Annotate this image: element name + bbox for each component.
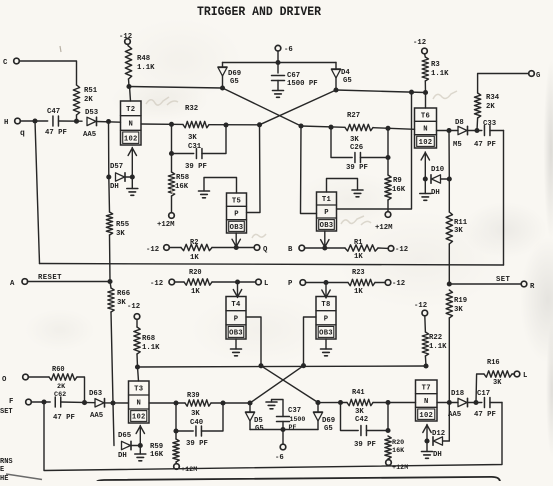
svg-text:DH: DH — [431, 189, 440, 197]
svg-text:2K: 2K — [486, 103, 495, 111]
feedback rail lower — [44, 402, 502, 471]
svg-text:1.1K: 1.1K — [431, 70, 449, 78]
cross wire T8 rail to left — [250, 366, 304, 403]
svg-text:3K: 3K — [350, 136, 359, 144]
svg-text:AA5: AA5 — [448, 411, 461, 419]
svg-text:E: E — [0, 466, 4, 474]
svg-text:D53: D53 — [85, 109, 99, 117]
arrow T5 to Q node — [235, 233, 237, 247]
svg-text:DH: DH — [110, 183, 119, 191]
svg-text:N: N — [136, 400, 141, 408]
svg-text:AA5: AA5 — [90, 412, 103, 420]
svg-text:R11: R11 — [454, 219, 468, 227]
svg-text:N: N — [128, 121, 133, 129]
arrow into T7 bottom — [426, 425, 428, 442]
svg-text:3K: 3K — [188, 134, 197, 142]
resistor R9 16K — [387, 158, 389, 176]
diode D5 to -6 rail — [249, 403, 251, 412]
node H-R51-D53 — [32, 118, 37, 123]
transistor block T2 — [121, 101, 142, 145]
svg-text:D18: D18 — [451, 390, 464, 398]
resistor R3 1.1K — [422, 57, 428, 81]
node D53-T2-D57 — [106, 119, 111, 124]
wire T1-P to cross node — [301, 126, 317, 214]
terminal -12 right of R1 — [388, 246, 394, 252]
arrow into T6 bottom — [424, 152, 426, 179]
svg-text:P: P — [288, 280, 293, 288]
resistor R39 3K — [185, 400, 211, 406]
diode D53 — [87, 117, 96, 125]
feedback rail upper — [40, 264, 504, 266]
wire -6 rail — [223, 62, 337, 64]
svg-text:P: P — [234, 211, 239, 219]
capacitor C42 39PF — [341, 403, 359, 431]
svg-text:C47: C47 — [47, 108, 60, 116]
resistor R2 1K — [181, 244, 212, 250]
resistor R27 3K — [345, 124, 373, 130]
wire T3 N output — [149, 402, 185, 404]
node C42 left — [338, 400, 343, 405]
wire D69b to R41 — [318, 402, 347, 404]
svg-text:3K: 3K — [454, 227, 463, 235]
wire D12 bypass up — [448, 403, 450, 442]
node T6 out — [446, 128, 451, 133]
diode D8 — [458, 126, 467, 134]
resistor R66 3K — [110, 282, 111, 289]
svg-text:T5: T5 — [232, 197, 241, 205]
resistor R32 3K — [183, 121, 209, 127]
terminal G — [529, 71, 535, 77]
cross wire T4 rail to right — [261, 366, 318, 403]
node R27 left — [328, 125, 333, 130]
svg-text:DH: DH — [433, 451, 442, 459]
svg-text:T7: T7 — [422, 384, 431, 392]
node T1 coupling — [298, 123, 303, 128]
svg-text:D8: D8 — [455, 119, 464, 127]
svg-text:C31: C31 — [188, 143, 202, 151]
wire R48 junction to T2 top — [130, 87, 131, 102]
diode D18 — [458, 398, 467, 406]
terminal -6 bottom — [282, 430, 284, 445]
ground above T1 — [327, 179, 358, 193]
capacitor C67 1500PF — [277, 63, 279, 74]
wire R3 node to T6 top — [425, 93, 427, 109]
svg-text:L: L — [523, 372, 527, 380]
transistor block T1 — [317, 192, 337, 231]
node T5 coupling — [257, 122, 262, 127]
vertical from C33 down — [503, 131, 505, 266]
svg-text:102: 102 — [419, 412, 433, 420]
svg-text:102: 102 — [132, 414, 146, 422]
svg-text:C40: C40 — [190, 419, 203, 427]
capacitor C26 39PF — [331, 127, 352, 157]
svg-text:-12: -12 — [395, 246, 408, 254]
svg-text:D4: D4 — [341, 69, 350, 77]
pencil scribbles — [146, 91, 457, 238]
svg-text:R27: R27 — [347, 112, 360, 120]
svg-text:-6: -6 — [284, 46, 293, 54]
arrow into T8 — [325, 283, 327, 299]
capacitor C47 — [52, 116, 54, 126]
svg-text:R32: R32 — [185, 105, 198, 113]
svg-text:2K: 2K — [84, 96, 93, 104]
svg-text:D65: D65 — [118, 432, 131, 440]
svg-text:16K: 16K — [392, 447, 405, 455]
arrow T1 to B node — [324, 231, 326, 248]
node R41 right — [385, 400, 390, 405]
diode D69 top — [222, 63, 224, 67]
svg-text:R48: R48 — [137, 55, 150, 63]
wire T8-P to lower rail — [304, 317, 317, 366]
svg-text:R41: R41 — [352, 389, 365, 397]
wire T2 N output — [141, 123, 183, 125]
svg-text:C62: C62 — [54, 391, 66, 399]
resistor R48 1.1K — [125, 46, 131, 79]
resistor R1 1K — [345, 245, 378, 251]
-6 rail bottom — [250, 429, 318, 431]
svg-text:16K: 16K — [392, 186, 406, 194]
arrow into T3 bottom — [139, 426, 141, 446]
wire D4 to R3 node — [336, 90, 426, 93]
capacitor C33 47PF — [483, 126, 485, 136]
node R39 left — [173, 400, 178, 405]
svg-text:P: P — [234, 315, 239, 323]
svg-text:T8: T8 — [321, 301, 330, 309]
svg-text:RNS: RNS — [0, 458, 13, 466]
svg-text:R23: R23 — [352, 269, 365, 277]
svg-text:R59: R59 — [150, 443, 163, 451]
svg-text:C37: C37 — [288, 407, 301, 415]
svg-text:TRIGGER AND DRIVER: TRIGGER AND DRIVER — [197, 5, 321, 19]
node R32 right — [223, 122, 228, 127]
wire T6 node down — [448, 131, 450, 180]
svg-text:R68: R68 — [142, 335, 155, 343]
node R27 right — [385, 126, 390, 131]
svg-text:+12M: +12M — [157, 221, 175, 229]
transistor block T8 — [316, 297, 336, 340]
svg-text:G5: G5 — [324, 425, 333, 433]
svg-text:PF: PF — [289, 424, 297, 431]
svg-text:T6: T6 — [421, 112, 430, 120]
svg-text:3K: 3K — [454, 306, 463, 314]
terminal +12M right — [385, 212, 391, 218]
node B — [322, 245, 327, 250]
diode D65 and ground below T3 — [113, 403, 114, 446]
wire T4-P to lower rail — [246, 317, 261, 366]
ground C67 — [273, 90, 284, 92]
svg-text:-12: -12 — [392, 280, 405, 288]
svg-text:-12: -12 — [413, 39, 426, 47]
svg-text:R66: R66 — [117, 290, 130, 298]
svg-text:3K: 3K — [117, 299, 126, 307]
transistor block T5 — [227, 193, 247, 233]
node RESET — [107, 279, 112, 284]
svg-text:R20: R20 — [392, 439, 404, 447]
capacitor C31 39PF — [172, 124, 194, 153]
svg-text:1.1K: 1.1K — [137, 64, 155, 72]
svg-text:102: 102 — [419, 139, 433, 147]
svg-text:OB3: OB3 — [230, 224, 244, 232]
ground below T8 — [325, 339, 327, 349]
resistor R41 3K — [347, 399, 373, 405]
svg-text:T4: T4 — [231, 301, 241, 309]
svg-text:-6: -6 — [275, 454, 284, 462]
svg-text:D57: D57 — [110, 163, 123, 171]
diode D69 bottom — [315, 400, 320, 405]
node Q — [234, 245, 239, 250]
svg-text:1500: 1500 — [290, 416, 306, 423]
svg-text:-12: -12 — [146, 246, 159, 254]
capacitor C40 39PF — [176, 403, 193, 431]
ground D10 — [424, 179, 426, 194]
transistor block T6 — [415, 108, 437, 148]
wire C to R51 — [19, 61, 76, 85]
terminal +12M left — [169, 213, 175, 219]
svg-text:R51: R51 — [84, 87, 98, 95]
wire H row — [20, 120, 47, 122]
svg-text:-12: -12 — [150, 280, 163, 288]
node L — [235, 279, 240, 284]
resistor R22 1.1K — [422, 332, 428, 356]
resistor R34 2K — [476, 118, 479, 131]
transistor block T7 — [416, 380, 438, 421]
svg-text:q: q — [20, 129, 25, 138]
svg-text:39 PF: 39 PF — [346, 164, 368, 172]
svg-text:+12M: +12M — [181, 466, 197, 474]
svg-text:N: N — [423, 126, 428, 134]
terminal +12M bottom right — [386, 460, 392, 466]
svg-text:1K: 1K — [190, 254, 199, 262]
svg-text:A: A — [10, 280, 15, 288]
ground above T5 — [204, 178, 237, 194]
node -6 — [275, 60, 280, 65]
node C37 — [280, 427, 285, 432]
svg-text:T2: T2 — [126, 106, 135, 114]
svg-text:D69: D69 — [228, 70, 241, 78]
svg-text:C26: C26 — [350, 144, 363, 152]
terminal -6 top — [275, 45, 281, 51]
wire to R27 — [301, 126, 345, 127]
svg-text:O: O — [2, 376, 7, 384]
terminal Q — [254, 245, 260, 251]
node R9 top — [385, 155, 390, 160]
cross wire D4 to left side — [260, 90, 337, 125]
node F feedback — [41, 399, 46, 404]
svg-text:OB3: OB3 — [229, 330, 243, 338]
svg-text:R22: R22 — [429, 334, 442, 342]
wire T6 N output — [437, 130, 459, 132]
wire R34 to G — [478, 74, 529, 94]
ground below T4 — [235, 339, 237, 349]
svg-text:R2: R2 — [190, 239, 198, 247]
resistor R55 3K — [108, 177, 111, 212]
svg-text:R60: R60 — [52, 366, 65, 374]
svg-text:R34: R34 — [486, 94, 500, 102]
svg-text:39 PF: 39 PF — [186, 440, 208, 448]
terminal -12 right of R23 — [385, 280, 391, 286]
vertical feedback wire from H node — [35, 121, 40, 264]
svg-text:L: L — [264, 280, 268, 288]
node P — [323, 280, 328, 285]
svg-text:47 PF: 47 PF — [45, 129, 67, 137]
wire T5-P to cross node — [247, 125, 261, 213]
diode D63 — [95, 399, 104, 407]
svg-text:G5: G5 — [230, 78, 239, 86]
terminal +12M bottom left — [174, 464, 180, 470]
svg-text:C: C — [3, 59, 8, 67]
node D4 — [333, 87, 338, 92]
svg-text:+12M: +12M — [375, 224, 393, 232]
lower cross rail — [138, 366, 427, 367]
bottom border box — [97, 477, 500, 482]
node R20b top — [385, 428, 390, 433]
svg-text:47 PF: 47 PF — [474, 411, 496, 419]
svg-text:R1: R1 — [354, 239, 362, 247]
svg-text:1K: 1K — [354, 253, 363, 261]
ground D65 — [139, 446, 141, 455]
svg-text:R9: R9 — [393, 177, 402, 185]
node R68 — [135, 364, 140, 369]
svg-text:T1: T1 — [322, 196, 332, 204]
svg-text:Q: Q — [263, 246, 268, 254]
svg-text:R19: R19 — [454, 297, 467, 305]
wire T7 right — [437, 402, 458, 404]
cross wire D69 to right side — [223, 88, 302, 126]
node D5 — [247, 400, 252, 405]
svg-text:R16: R16 — [487, 359, 500, 367]
svg-text:G: G — [536, 72, 541, 80]
svg-text:102: 102 — [124, 135, 138, 143]
svg-text:3K: 3K — [493, 379, 502, 387]
svg-text:1K: 1K — [354, 288, 363, 296]
resistor R11 3K — [446, 212, 452, 244]
resistor R58 16K — [171, 154, 173, 173]
svg-text:F: F — [9, 398, 13, 406]
resistor R59 16K — [175, 431, 177, 439]
svg-text:39 PF: 39 PF — [354, 441, 376, 449]
resistor R19 3K — [446, 290, 452, 318]
svg-text:G5: G5 — [343, 77, 352, 85]
svg-text:M5: M5 — [453, 141, 462, 149]
terminal L output — [514, 371, 520, 377]
svg-text:R39: R39 — [187, 392, 200, 400]
resistor R16 3K — [476, 374, 484, 403]
svg-text:-12: -12 — [414, 302, 427, 310]
node R48 — [126, 84, 131, 89]
svg-text:C67: C67 — [287, 72, 300, 80]
svg-text:B: B — [288, 246, 293, 254]
svg-text:3K: 3K — [355, 408, 364, 416]
ground D57 — [131, 177, 133, 189]
node R16 — [473, 400, 478, 405]
svg-text:R55: R55 — [116, 221, 129, 229]
svg-text:1.1K: 1.1K — [142, 344, 160, 352]
node R59 top — [173, 428, 178, 433]
svg-text:R: R — [530, 283, 535, 291]
svg-text:47 PF: 47 PF — [53, 414, 75, 422]
svg-text:R58: R58 — [176, 174, 189, 182]
svg-text:HE: HE — [0, 475, 8, 481]
svg-text:16K: 16K — [175, 183, 189, 191]
resistor R23 1K — [348, 279, 375, 285]
svg-text:C17: C17 — [477, 390, 490, 398]
svg-text:P: P — [324, 209, 329, 217]
node T7 out — [447, 400, 452, 405]
node R32 left — [169, 122, 174, 127]
node D63-T3 — [110, 400, 115, 405]
svg-text:47 PF: 47 PF — [474, 141, 496, 149]
svg-text:R3: R3 — [431, 61, 440, 69]
page corner mark — [6, 474, 42, 480]
svg-text:D10: D10 — [431, 166, 444, 174]
resistor R20 1K — [184, 279, 212, 285]
capacitor C62 47PF — [54, 397, 56, 407]
svg-text:C42: C42 — [355, 416, 368, 424]
svg-text:H: H — [4, 119, 8, 127]
svg-text:1.1K: 1.1K — [429, 343, 447, 351]
svg-text:D12: D12 — [432, 430, 445, 438]
svg-text:2K: 2K — [57, 383, 66, 391]
svg-text:D5: D5 — [254, 417, 263, 425]
capacitor C37 1500PF — [277, 416, 290, 418]
svg-text:AA5: AA5 — [83, 131, 96, 139]
wire R48 to D69 — [129, 87, 223, 89]
capacitor C17 47PF — [483, 398, 485, 408]
svg-text:1500 PF: 1500 PF — [287, 80, 318, 88]
svg-text:D63: D63 — [89, 390, 103, 398]
svg-text:DH: DH — [118, 452, 127, 460]
wire SET row — [449, 283, 521, 285]
svg-text:N: N — [424, 398, 429, 406]
wire R68 node to T3 top — [138, 367, 139, 381]
svg-text:-12: -12 — [127, 303, 140, 311]
svg-text:39 PF: 39 PF — [185, 163, 207, 171]
node R58 top — [169, 151, 174, 156]
svg-text:3K: 3K — [191, 410, 200, 418]
svg-text:T3: T3 — [134, 386, 143, 394]
node R60-D63 — [82, 400, 87, 405]
diode D4 top — [335, 63, 337, 69]
transistor block T3 — [129, 381, 150, 423]
svg-text:16K: 16K — [150, 451, 164, 459]
terminal L — [256, 279, 262, 285]
arrow into T2 bottom — [131, 148, 133, 178]
svg-text:OB3: OB3 — [319, 330, 333, 338]
svg-text:3K: 3K — [116, 230, 125, 238]
node R34 bottom — [474, 128, 479, 133]
node R39 right — [220, 400, 225, 405]
arrow into T4 — [237, 282, 239, 298]
svg-text:1K: 1K — [191, 288, 200, 296]
svg-text:R20: R20 — [189, 269, 202, 277]
resistor R60 2K — [49, 374, 77, 380]
node D69 — [220, 85, 225, 90]
ground D12 — [426, 441, 428, 452]
svg-text:SET: SET — [496, 276, 511, 284]
terminal R — [521, 281, 527, 287]
ground above C37 — [272, 400, 284, 417]
diode D57 and ground below T2 — [108, 122, 110, 178]
transistor block T4 — [226, 297, 246, 340]
resistor R51 — [73, 85, 79, 115]
wire T1-P right to R3 node line — [337, 92, 412, 209]
svg-text:D69: D69 — [322, 417, 335, 425]
svg-text:SET: SET — [0, 408, 13, 416]
resistor R68 1.1K — [134, 327, 140, 354]
svg-text:C33: C33 — [483, 120, 497, 128]
resistor R20 16K bottom — [385, 436, 391, 459]
node R3 — [423, 90, 428, 95]
